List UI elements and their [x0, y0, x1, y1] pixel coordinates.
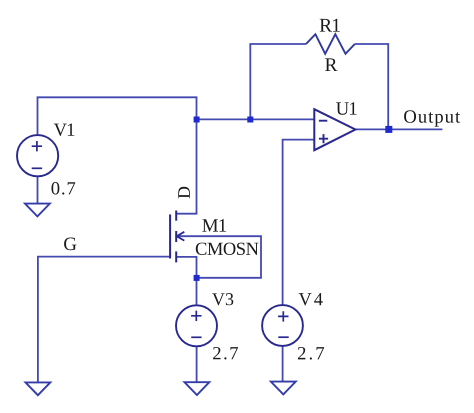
output node junction: [385, 126, 392, 133]
source/bulk node junction: [194, 275, 200, 281]
label 2.7 for V3: [213, 347, 238, 360]
label V4: [299, 293, 323, 305]
wire feedback right (R1 down to output node): [355, 44, 388, 129]
voltage source V1: [17, 135, 58, 176]
wire V4 minus terminal to ground: [282, 346, 284, 382]
label U1: [336, 102, 356, 114]
op-amp U1: [314, 109, 355, 150]
wire output: [355, 128, 442, 130]
transistor M1 channel drain segment: [175, 211, 177, 221]
label M1: [202, 219, 226, 232]
transistor M1 bulk arrow: [177, 232, 185, 241]
ground at G node (bottom left): [26, 382, 51, 395]
node B junction: [247, 117, 253, 123]
wire V1 plus terminal to node A: [38, 97, 197, 135]
label R value: [325, 58, 337, 71]
label 0.7: [52, 182, 76, 195]
label G gate node: [64, 237, 76, 250]
ground under V3: [185, 382, 210, 395]
label R1: [320, 19, 340, 32]
label D (drain pin, rotated): [178, 187, 190, 199]
label Output: [404, 110, 460, 126]
label 2.7 for V4: [298, 347, 324, 360]
wire drain branch: [176, 119, 196, 213]
voltage source V4: [262, 305, 303, 346]
wire op-amp non-inverting input to V4: [283, 140, 314, 306]
label V1: [54, 124, 74, 136]
wire gate node G: [38, 257, 170, 383]
label V3: [212, 293, 233, 305]
transistor M1 gate bar: [169, 214, 171, 258]
wire node A to op-amp inverting input: [197, 118, 315, 120]
wire feedback left (node B up to R1): [250, 44, 306, 119]
label CMOSN: [196, 243, 259, 255]
transistor M1 channel bulk segment: [175, 231, 177, 242]
ground under V4: [271, 382, 296, 395]
node A junction: [194, 117, 200, 123]
wire V3 minus terminal to ground: [196, 346, 198, 382]
voltage source V3: [176, 305, 217, 346]
transistor M1 channel source segment: [175, 251, 177, 262]
wire source branch to V3: [176, 257, 196, 306]
wire bulk to source loop: [177, 236, 261, 278]
ground under V1: [25, 204, 50, 217]
resistor R1: [306, 34, 355, 54]
wire V1 minus terminal to ground: [37, 176, 39, 203]
